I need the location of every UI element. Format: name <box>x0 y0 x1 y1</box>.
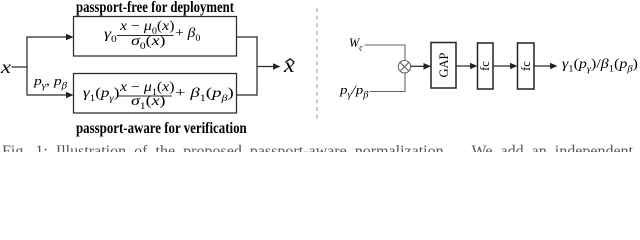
fraction bar bottom formula <box>117 95 172 97</box>
box passport-free branch <box>74 17 237 57</box>
formula top denominator <box>131 35 166 49</box>
wire to bottom box <box>27 94 67 96</box>
wire to top box <box>27 36 67 38</box>
wire GAP to fc1 <box>456 65 471 67</box>
wire fc2 to output <box>534 65 551 67</box>
caption text <box>0 143 640 152</box>
label Wc <box>349 36 363 49</box>
formula bottom denominator <box>131 95 166 109</box>
arrowhead output xhat <box>273 63 281 70</box>
hat accent of x-hat <box>286 59 295 62</box>
wire to output xhat <box>257 66 274 68</box>
wire from passports <box>370 73 406 92</box>
wire fc1 to fc2 <box>493 65 511 67</box>
title passport-aware <box>76 121 247 137</box>
wire input x horizontal <box>12 66 28 68</box>
multiplier circle <box>398 60 410 72</box>
label fc2 <box>518 43 535 89</box>
box GAP <box>431 43 456 89</box>
box passport-aware branch <box>74 74 237 114</box>
fraction bar top formula <box>117 35 174 37</box>
arrowhead into bottom box <box>66 92 74 99</box>
formula top numerator <box>120 20 174 34</box>
formula top: gamma0 <box>104 28 117 42</box>
node x input <box>1 58 11 76</box>
box fc1 <box>478 43 494 89</box>
formula bottom plus beta1(p_beta) <box>175 87 234 101</box>
wire out of top box <box>237 36 258 38</box>
label GAP <box>431 43 456 89</box>
label output gamma/beta <box>562 57 638 71</box>
title passport-free <box>76 0 234 16</box>
formula top plus beta0 <box>175 27 200 41</box>
wire from Wc <box>365 45 406 61</box>
arrowhead final output <box>550 63 558 70</box>
box fc2 <box>518 43 535 89</box>
wire input branch vertical <box>26 36 28 95</box>
formula bottom numerator <box>120 81 174 95</box>
label p_gamma / p_beta <box>340 83 368 96</box>
label passports left <box>34 74 67 87</box>
wire merge vertical <box>256 36 258 95</box>
arrowhead into fc1 <box>470 63 478 70</box>
wire out of bottom box <box>237 94 258 96</box>
node x-hat output <box>284 56 295 76</box>
label fc1 <box>478 43 494 89</box>
arrowhead into GAP <box>424 63 432 70</box>
arrowhead into top box <box>66 34 74 41</box>
arrowhead into fc2 <box>510 63 518 70</box>
wire multiplier to GAP <box>411 65 425 67</box>
multiplier X stroke 1 <box>400 62 409 71</box>
dashed separator line <box>316 8 318 122</box>
multiplier X stroke 2 <box>400 62 409 71</box>
formula bottom: gamma1(p_gamma) <box>83 87 119 101</box>
